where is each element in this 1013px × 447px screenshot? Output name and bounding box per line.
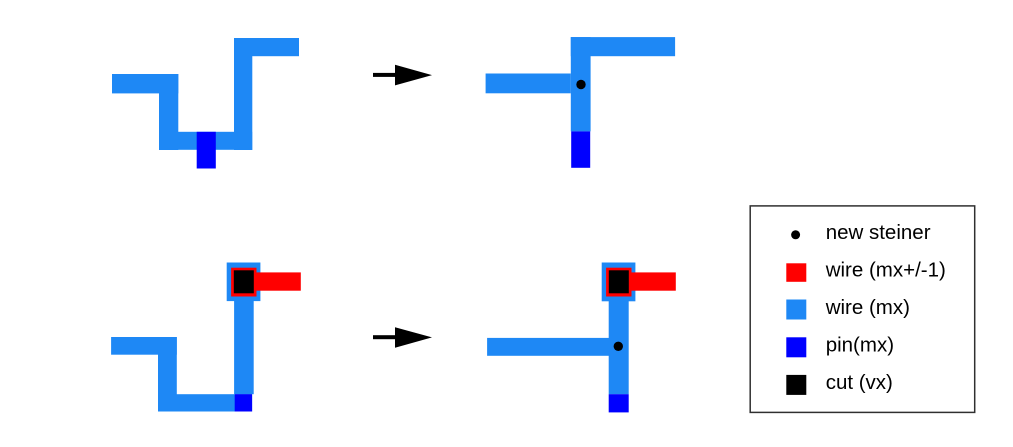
svg-text:wire (mx+/-1): wire (mx+/-1) <box>825 259 946 282</box>
svg-text:cut (vx): cut (vx) <box>826 371 893 394</box>
svg-text:pin(mx): pin(mx) <box>826 334 894 357</box>
svg-text:new steiner: new steiner <box>826 221 931 244</box>
svg-text:wire (mx): wire (mx) <box>825 296 910 319</box>
